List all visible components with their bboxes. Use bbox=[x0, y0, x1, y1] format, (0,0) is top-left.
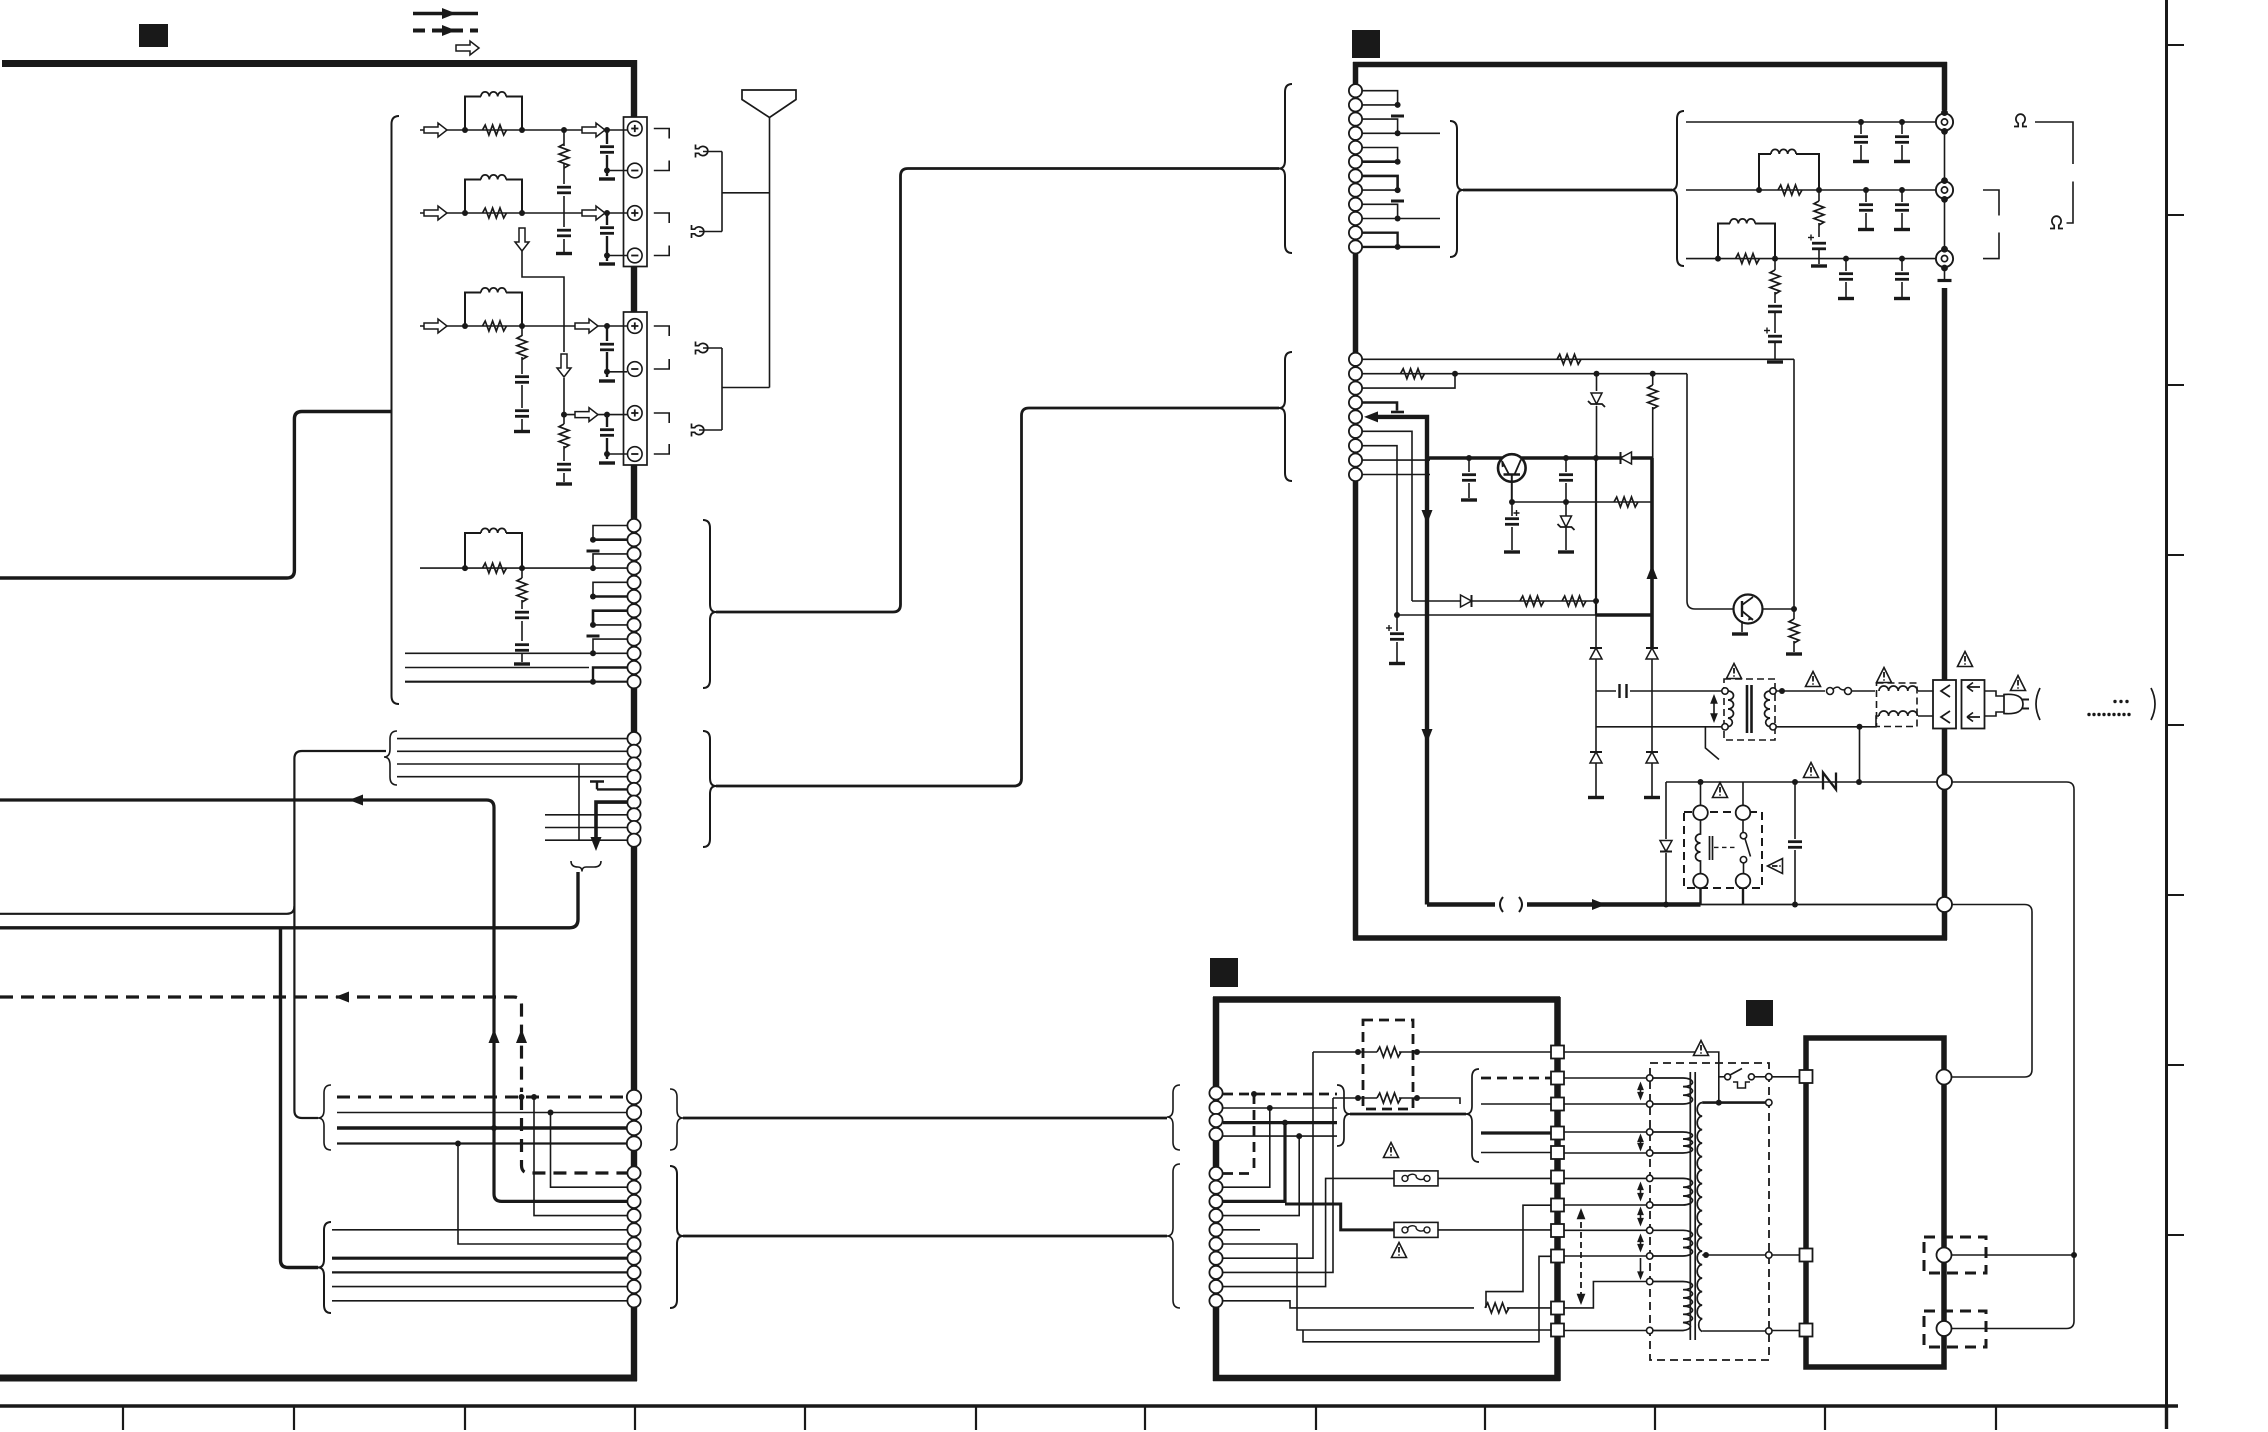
CN102 speaker bracket pair 2 bbox=[654, 413, 669, 454]
feedback node wire bbox=[1397, 614, 1596, 616]
ground row1-b bbox=[599, 178, 615, 180]
transformer T2 dashed box bbox=[1650, 1063, 1769, 1360]
node r3 bbox=[1395, 159, 1401, 165]
right block bottom border bbox=[1353, 935, 1947, 941]
wire B2 link bbox=[1223, 1108, 1270, 1187]
CN105 wire 2 bbox=[337, 1112, 627, 1114]
wire n2 up bbox=[1859, 727, 1861, 782]
AC connector box 2 bbox=[1962, 680, 1985, 729]
node row1-e bbox=[604, 168, 610, 174]
connector CN103 pins (12) bbox=[627, 519, 640, 688]
resistor R303 bbox=[1377, 1093, 1401, 1103]
wire L3 bbox=[0, 872, 578, 928]
resistor R203 bbox=[1736, 254, 1760, 264]
node row5-a bbox=[462, 565, 468, 571]
polarity arrow 4 bbox=[1637, 1207, 1644, 1227]
inductor L102 loop bbox=[465, 180, 522, 214]
wire Q1 emitter bbox=[1511, 475, 1513, 503]
warning triangle W3 bbox=[1877, 668, 1892, 683]
brace CN106 group bbox=[670, 1166, 683, 1308]
node j3d bbox=[1899, 256, 1905, 262]
wire row2 jog to x564 bbox=[522, 251, 564, 415]
node zd2 bbox=[1594, 371, 1600, 377]
CN106 wire D8 bbox=[332, 1271, 627, 1273]
wire F2 out bbox=[1438, 1177, 1551, 1179]
wire Q2 collector bbox=[1762, 608, 1794, 610]
T1 primary winding bbox=[1728, 691, 1734, 727]
border ruler right vertical bbox=[2165, 0, 2168, 1406]
CN103 pin2 stub bbox=[593, 538, 627, 541]
ruler tick bottom 6 bbox=[975, 1405, 977, 1430]
CN103 pin6 stub bbox=[593, 595, 627, 598]
brace fan A bbox=[1466, 1069, 1479, 1162]
switcher bus thick bbox=[1427, 456, 1652, 460]
wire row3 shunt bbox=[521, 326, 523, 430]
outside link B bbox=[1952, 905, 2032, 1078]
CN105 wire 1 dashed bbox=[337, 1096, 627, 1099]
ruler tick bottom 4 bbox=[634, 1405, 636, 1430]
wire pad10 to w5 top jog bbox=[1564, 1282, 1647, 1308]
T2 secondary top tap thick bbox=[1702, 1101, 1765, 1104]
legend open arrow symbol bbox=[456, 41, 479, 55]
T1 pin circles bbox=[1722, 688, 1776, 730]
border circle RB-C bbox=[1937, 1321, 1952, 1336]
node j2b bbox=[1816, 187, 1822, 193]
wire/ground j2b bbox=[1818, 249, 1820, 264]
ruler tick bottom 1 bbox=[122, 1405, 124, 1430]
bridge mid wire upper bbox=[1596, 690, 1724, 692]
ground j1b bbox=[1894, 161, 1910, 163]
cable bundle A bbox=[716, 169, 1279, 613]
node C2 tap bbox=[548, 1110, 554, 1116]
row1 input open arrow bbox=[424, 123, 447, 137]
CN102 terminal - (pin 4) bbox=[628, 447, 643, 462]
legend dashed arrowhead bbox=[442, 25, 456, 36]
capacitor C108 bbox=[557, 464, 571, 470]
CN201 pin10 wire bbox=[1362, 218, 1440, 220]
T2 thermal switch TH1 bbox=[1719, 1069, 1766, 1089]
wire A2 bbox=[1223, 1107, 1337, 1109]
FL1 out wires bbox=[1918, 691, 1933, 716]
row2 input open arrow bbox=[424, 206, 447, 220]
node T2 tap bbox=[1703, 1252, 1709, 1258]
wire B3 node to fuse F3 thick bbox=[1285, 1204, 1395, 1230]
ground sw5 bbox=[1504, 551, 1520, 553]
AC box2 contacts bbox=[1967, 683, 1980, 722]
arrow left into pin5 bbox=[1364, 411, 1378, 422]
omega label 6 bbox=[2050, 216, 2063, 228]
wire T2 bottom out bbox=[1772, 1330, 1799, 1332]
T1 output wire lower bbox=[1777, 716, 1880, 727]
node row4-d bbox=[604, 412, 610, 418]
connector CN301 pins (4) bbox=[1209, 1086, 1222, 1141]
fuse F1 wire bbox=[1851, 690, 1875, 692]
capacitor C206 bbox=[1768, 306, 1782, 312]
node r4 bbox=[1395, 187, 1401, 193]
node row2-d bbox=[604, 210, 610, 216]
wire B4 link bbox=[1223, 1136, 1299, 1216]
pad column (11) bbox=[1551, 1046, 1564, 1337]
ground br-r bbox=[1644, 797, 1660, 799]
AC plug prongs bbox=[2022, 700, 2029, 709]
node st-c bbox=[590, 594, 596, 600]
CN201 pin8 stub bbox=[1362, 189, 1398, 191]
resistor R102 bbox=[559, 144, 569, 168]
FL1 coil upper bbox=[1879, 686, 1917, 691]
arrow down rail 2 bbox=[1422, 729, 1433, 743]
neutral wire N bbox=[1666, 781, 1937, 783]
node p1l bbox=[1355, 1049, 1361, 1055]
diode D206 bbox=[1646, 752, 1658, 763]
wire collector down bbox=[1793, 609, 1795, 652]
relay coil bbox=[1696, 820, 1701, 874]
brace CN103 group bbox=[703, 520, 716, 688]
arrow down CN104 pin6 bbox=[591, 837, 602, 851]
ground row5 bbox=[514, 663, 530, 665]
inductor L104 bbox=[481, 528, 506, 533]
border circle RB-A bbox=[1937, 1070, 1952, 1085]
transistor Q1 bbox=[1498, 454, 1526, 482]
vertical jog wire bbox=[578, 764, 580, 840]
node T2 top tap bbox=[1716, 1100, 1722, 1106]
border circle node A bbox=[1937, 775, 1952, 790]
wire pack row2 to B8 bbox=[1223, 1098, 1333, 1272]
wire bus line L1 bbox=[0, 800, 627, 1201]
node sw3 bbox=[1563, 455, 1569, 461]
CN104 bundle wire 2 bbox=[397, 750, 627, 752]
arrow left on L1 bbox=[349, 795, 363, 806]
line filter FL1 dashed box bbox=[1877, 683, 1918, 727]
wire pack row1 bbox=[1313, 1051, 1551, 1053]
connector CN105 pins (4) bbox=[627, 1090, 641, 1151]
pad RB2 bbox=[1800, 1249, 1813, 1262]
inductor L202 loop bbox=[1718, 224, 1775, 259]
relay top stubs bbox=[1701, 782, 1744, 805]
CN106 wire D5 bbox=[332, 1229, 627, 1231]
inductor L101 bbox=[481, 92, 506, 97]
node row1-a bbox=[462, 127, 468, 133]
node row4-a bbox=[561, 412, 567, 418]
arrow left on L4 bbox=[335, 992, 349, 1003]
fan wire 4 bbox=[1481, 1152, 1551, 1154]
mid block bottom border bbox=[1213, 1375, 1560, 1382]
T2 bottom wire bbox=[1702, 1330, 1765, 1332]
inductor L201 loop bbox=[1759, 154, 1819, 190]
left block right border bbox=[631, 60, 637, 1381]
row3 input open arrow bbox=[424, 319, 447, 333]
T2 secondary winding bbox=[1697, 1103, 1702, 1332]
node row3-e bbox=[604, 369, 610, 375]
label N bbox=[1823, 773, 1836, 790]
brace jack feed left bbox=[1450, 121, 1463, 257]
node m3 bbox=[1282, 1120, 1288, 1126]
node st-f bbox=[590, 679, 596, 685]
CN101 speaker bracket pair 1 bbox=[654, 129, 669, 171]
warning triangle W10 bbox=[1392, 1243, 1407, 1258]
omega bus tap upper bbox=[722, 192, 770, 194]
diode D207 bbox=[1660, 841, 1672, 852]
ground j3d bbox=[1894, 298, 1910, 300]
capacitor C103 bbox=[606, 130, 608, 176]
CN104 bundle wire 4 bbox=[397, 776, 627, 778]
warning triangle W6 bbox=[1713, 783, 1728, 798]
ruler tick right 4 bbox=[2166, 554, 2184, 556]
wire pack row1 to B7 bbox=[1223, 1052, 1313, 1258]
capacitor C202 bbox=[1901, 122, 1903, 160]
capacitor C208 bbox=[1845, 259, 1847, 297]
capacitor C105 bbox=[515, 377, 529, 383]
T2 core bbox=[1690, 1072, 1695, 1340]
CN104 pin9 wire bbox=[545, 839, 627, 841]
wire pad1 to thermal switch bbox=[1564, 1052, 1719, 1103]
capacitor C205 bbox=[1901, 190, 1903, 228]
node row3-b bbox=[519, 323, 525, 329]
capacitor C214 series bbox=[1620, 684, 1627, 698]
wire B9 to fuse F2 bbox=[1223, 1178, 1395, 1286]
resistor R105 bbox=[517, 336, 527, 360]
capacitor C212 polarized bbox=[1511, 502, 1513, 550]
node row3-d bbox=[604, 323, 610, 329]
wire pad4 to w2 top bbox=[1564, 1131, 1647, 1133]
CN103 wire long mid bbox=[405, 667, 589, 669]
CN201 pin9 stub bbox=[1362, 204, 1398, 218]
node row3-a bbox=[462, 323, 468, 329]
section marker square 4 (bottom right block) bbox=[1746, 1000, 1773, 1026]
capacitor C204 bbox=[1865, 190, 1867, 228]
wire B1 link vertical dashed bbox=[1253, 1094, 1256, 1174]
node sw4 bbox=[1563, 499, 1569, 505]
AC connector box 1 bbox=[1933, 680, 1956, 729]
fuse F1 bbox=[1827, 687, 1852, 694]
CN103 pin4 stub bbox=[593, 567, 627, 569]
ground row2 bbox=[599, 263, 615, 265]
CN103 pin10 wire long bbox=[405, 652, 627, 654]
row1 input wire bbox=[420, 129, 627, 131]
node st-e bbox=[590, 650, 596, 656]
CN105 wire 3 thick bbox=[337, 1126, 627, 1129]
wire pack row2 bbox=[1333, 1098, 1460, 1104]
CN103 pin11 stub bbox=[593, 668, 627, 682]
CN202 pin5 thick rail with arrow bbox=[1372, 417, 1427, 905]
dashed connector frame 1 bbox=[1924, 1237, 1986, 1273]
jack ground chain wire 2 bbox=[1944, 201, 1946, 247]
AC plug P1 bbox=[2004, 694, 2023, 713]
resistor pack dashed box bbox=[1363, 1020, 1413, 1109]
wire B10 to resistor bbox=[1223, 1301, 1474, 1308]
omega bracket right outer bbox=[2035, 122, 2073, 223]
thick link vertical bbox=[1595, 458, 1597, 615]
rail thin continuation bbox=[1701, 904, 1938, 906]
CN201 pin3 stub bbox=[1362, 119, 1398, 133]
wire A1 dashed bbox=[1223, 1093, 1337, 1096]
node C1 tap bbox=[531, 1094, 537, 1100]
ground j3c bbox=[1838, 298, 1854, 300]
node j2c bbox=[1863, 187, 1869, 193]
connector CN302 pins (10) bbox=[1209, 1167, 1222, 1308]
brace mid-block group A bbox=[1167, 1085, 1180, 1150]
node j2d bbox=[1899, 187, 1905, 193]
warning triangle W5 bbox=[2011, 676, 2026, 691]
node fb1 bbox=[1394, 612, 1400, 618]
jack ground chain wire 3 bbox=[1944, 270, 1946, 279]
ruler tick bottom 9 bbox=[1484, 1405, 1486, 1430]
BNC jack J3 bbox=[1936, 246, 1953, 272]
CN103 pin7 stub bbox=[593, 611, 627, 625]
T2 pin circle mid bbox=[1766, 1252, 1772, 1258]
capacitor C109 bbox=[606, 415, 608, 459]
wire/ground j3b bbox=[1774, 342, 1776, 360]
polarity arrow 1 bbox=[1637, 1082, 1644, 1101]
node st-b bbox=[590, 565, 596, 571]
jack line 3 bbox=[1686, 258, 1936, 260]
brace right-block group B bbox=[1279, 352, 1292, 481]
wire R301 out bbox=[1507, 1307, 1551, 1309]
CN106 wire D7 thick bbox=[332, 1257, 627, 1260]
node p1r bbox=[1414, 1049, 1420, 1055]
brace CN104 group bbox=[703, 731, 716, 847]
BNC jack J2 bbox=[1936, 177, 1953, 203]
input feed wire bbox=[0, 412, 391, 579]
border circle node B bbox=[1937, 897, 1952, 912]
capacitor C210 bbox=[1468, 458, 1470, 498]
wire pad7 feed bbox=[1486, 1205, 1551, 1308]
speaker symbol bbox=[742, 90, 796, 118]
CN102 terminal + (pin 3) bbox=[628, 406, 643, 421]
AC box1 contacts bbox=[1941, 685, 1950, 723]
relay contact bbox=[1740, 820, 1750, 874]
wire pad6 to w3 top bbox=[1564, 1177, 1647, 1179]
node p2r bbox=[1414, 1095, 1420, 1101]
node r2 bbox=[1395, 130, 1401, 136]
border circle RB-B bbox=[1937, 1248, 1952, 1263]
right block top border bbox=[1353, 62, 1947, 68]
transformer T1 dashed box bbox=[1724, 679, 1775, 740]
thick link horizontal bbox=[1596, 613, 1652, 617]
CN104 pin5 chassis stub bbox=[590, 782, 627, 790]
T1 secondary winding bbox=[1765, 691, 1771, 727]
node n1 bbox=[1792, 779, 1798, 785]
T1 shield stub bbox=[1705, 727, 1719, 760]
wire to CN102 minus 2 bbox=[607, 453, 627, 455]
CN106 wire D10 bbox=[332, 1300, 627, 1302]
omega label 2 bbox=[692, 225, 704, 238]
jack ground chain wire 1 bbox=[1944, 133, 1946, 179]
ruler tick bottom 3 bbox=[464, 1405, 466, 1430]
internal bundle thick bbox=[1350, 1113, 1466, 1116]
row3 input wire bbox=[420, 325, 627, 327]
node st-d bbox=[590, 622, 596, 628]
cable break symbol bbox=[1500, 897, 1522, 912]
row2 open down arrow bbox=[515, 228, 529, 251]
ground j2c bbox=[1858, 229, 1874, 231]
section marker square 2 (top right block) bbox=[1352, 30, 1380, 58]
brace C-left bbox=[318, 1085, 331, 1150]
node rb1 bbox=[1452, 371, 1458, 377]
node r6 bbox=[1395, 244, 1401, 250]
resistor R201 bbox=[1778, 185, 1802, 195]
ground row4 bbox=[556, 483, 572, 485]
capacitor C215 bbox=[1794, 782, 1796, 905]
resistor R202 bbox=[1818, 190, 1820, 237]
brace jack fanout bbox=[1671, 111, 1684, 266]
resistor R206 bbox=[1401, 369, 1425, 379]
omega 4 link bbox=[699, 429, 722, 431]
omega label 5 bbox=[2014, 114, 2027, 126]
connector CN102 body bbox=[624, 312, 648, 465]
wire pad11 to w5 bottom bbox=[1564, 1330, 1647, 1332]
dotted cord row 1 bbox=[2113, 700, 2128, 703]
wire F3 out bbox=[1438, 1229, 1551, 1231]
wire pad11 feed bbox=[1223, 1244, 1551, 1330]
node m2 bbox=[1267, 1105, 1273, 1111]
warning triangle W9 bbox=[1384, 1143, 1399, 1158]
CN103 pin12 wire long bbox=[405, 681, 627, 683]
capacitor C111 bbox=[515, 645, 529, 651]
CN104 pin7 wire bbox=[545, 814, 627, 816]
speaker common wire bbox=[769, 118, 771, 388]
ground row4-b bbox=[599, 462, 615, 464]
CN103 pin9 stub bbox=[593, 639, 627, 653]
brace D-left bbox=[318, 1222, 331, 1313]
mid block left border bbox=[1213, 997, 1220, 1381]
row5 input wire bbox=[420, 567, 593, 569]
fan wire 1 dashed bbox=[1481, 1077, 1551, 1080]
node m4 bbox=[1296, 1133, 1302, 1139]
wire pad9 to w4 bottom bbox=[1564, 1255, 1647, 1257]
BNC jack J1 bbox=[1936, 109, 1953, 135]
diode D205 bbox=[1590, 752, 1602, 763]
resistor R204 bbox=[1774, 259, 1776, 303]
wire L4 dashed bus bbox=[0, 997, 522, 1092]
bottom right block border bbox=[1806, 1038, 1944, 1367]
resistor R107 bbox=[483, 563, 507, 573]
node L1/C3 bbox=[491, 1125, 497, 1131]
T2 winding 3 bbox=[1653, 1178, 1693, 1205]
resistor R210 bbox=[1789, 619, 1799, 643]
T2 winding 4 bbox=[1653, 1230, 1693, 1256]
right block right border seg4 bbox=[1942, 288, 1948, 940]
arrow up bridge right bbox=[1647, 565, 1658, 579]
wire B3 link thick bbox=[1223, 1123, 1285, 1202]
CN101 terminal - (pin 4) bbox=[628, 248, 643, 263]
relay pin circles bbox=[1693, 805, 1750, 888]
node sw2 bbox=[1509, 499, 1515, 505]
input group brace bus bbox=[392, 116, 400, 704]
T2 pin circle sec-top bbox=[1766, 1099, 1772, 1105]
ground j2d bbox=[1894, 229, 1910, 231]
polarity arrow 2 bbox=[1637, 1134, 1644, 1152]
capacitor C213 polarized bbox=[1396, 615, 1398, 662]
omega label 3 bbox=[696, 342, 708, 355]
CN104 pin6 thick wire with arrow bbox=[596, 802, 627, 838]
resistor R103 bbox=[483, 208, 507, 218]
resistor R207 bbox=[1614, 497, 1638, 507]
warning triangle W1 bbox=[1727, 664, 1742, 679]
fuse F2 bbox=[1394, 1171, 1438, 1186]
warning triangle W7 bbox=[1804, 763, 1819, 778]
diode D204 bbox=[1646, 648, 1658, 659]
brace cup under arrow bbox=[571, 861, 601, 872]
wire L3 branch to brace D bbox=[281, 929, 319, 1268]
wire A3 thick bbox=[1223, 1121, 1337, 1124]
inductor L103 loop bbox=[465, 293, 522, 327]
CN101 speaker bracket pair 2 bbox=[654, 213, 669, 256]
CN202 pin9 stub bbox=[1362, 474, 1430, 476]
cable bundle B bbox=[716, 408, 1279, 786]
T2 center tap bbox=[1702, 1254, 1765, 1256]
dotted cord row 2 bbox=[2087, 713, 2130, 716]
T1 output wire upper bbox=[1777, 690, 1826, 692]
